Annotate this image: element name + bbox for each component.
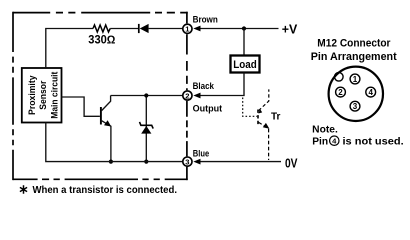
svg-text:Black: Black: [193, 81, 215, 91]
wire: 0V rail outside sensor: [200, 161, 282, 163]
arrow into terminal 3: [193, 159, 200, 165]
footnote asterisk: [20, 185, 27, 193]
terminal 3 circle: [183, 157, 192, 166]
M12 pin 1 circle: [350, 74, 360, 84]
external transistor Tr lower arrowhead: [263, 123, 270, 129]
sensor boundary right edge (chain line through terminals): [186, 12, 188, 180]
svg-text:+V: +V: [282, 21, 298, 36]
wire: Load to output line: [200, 73, 245, 96]
M12 pin 4 circle: [366, 87, 376, 97]
wire: riser from box top to +V rail: [46, 29, 93, 69]
circled 4 in note: [330, 136, 339, 145]
svg-text:Tr: Tr: [271, 112, 281, 123]
M12 connector body circle: [329, 67, 383, 121]
transistor Q1 collector: [102, 96, 111, 111]
svg-text:Load: Load: [233, 59, 257, 71]
wire: +V rail outside sensor: [200, 28, 279, 30]
svg-text:Blue: Blue: [193, 148, 209, 158]
svg-text:Sensor: Sensor: [38, 80, 49, 109]
arrow into terminal 2: [193, 93, 200, 99]
diode D1 (triangle): [140, 24, 149, 33]
zener diode ZD triangle: [141, 126, 151, 134]
transistor Q1 emitter: [102, 121, 111, 162]
wire: 0V line inside sensor and branch to box bottom: [46, 123, 184, 162]
svg-text:2: 2: [185, 91, 189, 100]
sensor boundary left edge (chain line): [12, 12, 14, 180]
transistor Q1 base wire from main circuit: [62, 97, 100, 116]
svg-text:Brown: Brown: [193, 15, 218, 25]
svg-text:4: 4: [368, 88, 373, 97]
M12 pin 2 circle: [336, 87, 346, 97]
dotted branch to external transistor base: [243, 98, 258, 117]
zener diode ZD bar with bent tips: [140, 122, 154, 129]
terminal 1 circle: [183, 24, 192, 33]
external transistor Tr base bar (dashed): [257, 110, 259, 126]
wire: output line inside sensor: [111, 95, 184, 97]
M12 pin 3 circle: [350, 101, 360, 111]
zener diode ZD wire: [145, 96, 147, 162]
main circuit box U1: [22, 68, 62, 123]
transistor Q1 base bar: [100, 107, 102, 125]
svg-text:is not used.: is not used.: [343, 136, 404, 147]
sensor boundary top edge (chain line): [13, 12, 188, 14]
svg-text:Note.: Note.: [312, 124, 338, 135]
arrow into terminal 1: [193, 26, 200, 32]
svg-text:Output: Output: [193, 103, 223, 113]
external transistor Tr upper arrowhead: [258, 109, 262, 113]
wire: diode to terminal 1: [149, 28, 184, 30]
svg-text:1: 1: [353, 75, 358, 84]
diode D1 (cathode bar): [138, 24, 140, 33]
svg-text:Pin Arrangement: Pin Arrangement: [311, 51, 397, 63]
svg-text:2: 2: [338, 88, 343, 97]
junction dot on +V rail at load branch: [242, 26, 246, 30]
svg-text:Proximity: Proximity: [27, 75, 38, 115]
external transistor Tr upper lead (dashed): [259, 89, 269, 110]
svg-text:330Ω: 330Ω: [88, 35, 115, 47]
load box: [231, 56, 260, 73]
svg-text:3: 3: [353, 102, 358, 111]
svg-text:3: 3: [185, 157, 189, 166]
junction dot zener top: [144, 93, 148, 97]
svg-text:Pin: Pin: [312, 136, 328, 147]
svg-text:Main circuit: Main circuit: [49, 71, 60, 119]
svg-text:When a transistor is connected: When a transistor is connected.: [33, 185, 178, 196]
external transistor Tr lower lead (dashed): [259, 122, 269, 160]
wire: +V rail to Load: [243, 29, 245, 56]
wire: resistor to diode: [110, 28, 138, 30]
svg-text:0V: 0V: [285, 155, 298, 170]
svg-text:M12 Connector: M12 Connector: [317, 38, 391, 50]
junction dot zener bottom: [144, 160, 148, 164]
terminal 2 circle: [183, 91, 192, 100]
sensor boundary bottom edge (chain line): [13, 178, 188, 180]
M12 keying notch: [335, 73, 344, 82]
junction dot emitter on 0V line: [109, 160, 113, 164]
transistor Q1 emitter arrowhead: [104, 120, 111, 126]
resistor R (330 ohm): [93, 25, 110, 32]
